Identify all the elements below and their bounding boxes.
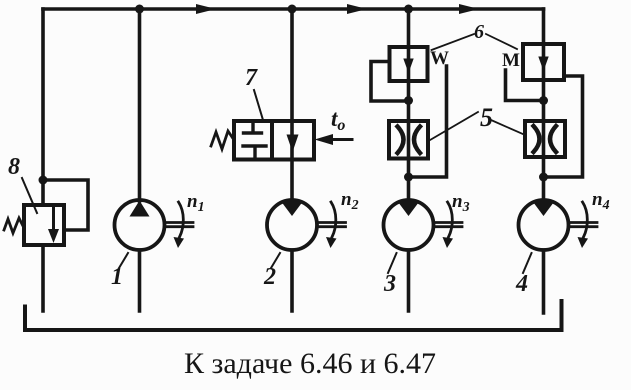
svg-text:5: 5 bbox=[480, 103, 493, 132]
svg-text:7: 7 bbox=[245, 65, 258, 91]
valve 6 right spring-side pilot line bbox=[506, 70, 544, 101]
label 2 leader bbox=[271, 253, 280, 268]
valve 6 left spring-side pilot line bbox=[409, 66, 447, 177]
motor 4 circle bbox=[519, 200, 569, 250]
label 4 leader bbox=[523, 253, 532, 273]
label 7 leader bbox=[254, 90, 263, 120]
relief valve 8 spring bbox=[4, 218, 24, 233]
wire: motor 3 to tank bbox=[407, 250, 411, 311]
wire: pump 1 to tank bbox=[138, 250, 142, 311]
throttle 5 left venturi arcs bbox=[398, 127, 421, 154]
valve 6 right internal arrow bbox=[538, 57, 548, 72]
relief valve 8 internal flow arrow bbox=[52, 207, 55, 235]
relief valve 8 body bbox=[24, 205, 64, 245]
node: junction on rail at branch 3 bbox=[404, 5, 413, 14]
pump 1 circle bbox=[115, 200, 165, 250]
label 6 leaders bbox=[432, 34, 518, 50]
svg-text:3: 3 bbox=[383, 271, 396, 297]
flow-control valve 6 (left) body bbox=[390, 47, 428, 81]
svg-text:8: 8 bbox=[8, 154, 20, 180]
svg-text:К задаче 6.46 и 6.47: К задаче 6.46 и 6.47 bbox=[184, 347, 436, 380]
relief valve 8 pilot line bbox=[43, 180, 88, 230]
valve 7 flow arrow (right position) bbox=[287, 135, 299, 153]
label 8 leader bbox=[22, 178, 37, 213]
flow-control valve 6 (right) body bbox=[523, 44, 564, 80]
flow arrow on rail 2 bbox=[346, 8, 360, 11]
node: junction on rail at branch 1 bbox=[135, 5, 144, 14]
motor 2 flow arrow (down) bbox=[281, 201, 303, 216]
svg-text:W: W bbox=[430, 48, 449, 69]
motor 4 rotation arrow bbox=[583, 202, 588, 237]
motor 4 flow arrow (down) bbox=[533, 201, 555, 216]
svg-text:1: 1 bbox=[111, 264, 123, 290]
tank return rail bbox=[25, 301, 562, 330]
motor 4 shaft bbox=[570, 223, 597, 227]
wire: branch 3 upper (rail through valve 6 and throttle 5 to pump 3) bbox=[407, 9, 411, 201]
node: junction below throttle 5 right bbox=[539, 173, 548, 182]
pump 1 rotation arrow bbox=[179, 202, 184, 237]
valve 6 left internal arrow bbox=[403, 59, 413, 74]
pump 1 shaft bbox=[166, 223, 193, 227]
throttle 5 (left) body bbox=[389, 121, 428, 159]
motor 3 rotation arrow bbox=[448, 202, 453, 237]
node: junction below valve 6 right bbox=[539, 96, 548, 105]
flow arrow on rail 3 bbox=[458, 8, 472, 11]
node: junction on rail at branch 2 bbox=[288, 5, 297, 14]
node: junction below throttle 5 left bbox=[404, 173, 413, 182]
node: pilot junction on left branch bbox=[39, 176, 48, 185]
wire: branch 4 upper (rail corner down through valve 6 and throttle 5 to pump 4) bbox=[542, 9, 546, 201]
valve 7 spring bbox=[211, 131, 234, 149]
valve 6 left pilot loop (upstream sense) bbox=[371, 62, 409, 102]
flow arrow on rail 1 bbox=[195, 8, 209, 11]
label 5 leaders bbox=[428, 112, 526, 142]
wire: left branch lower (valve 8 to tank rail) bbox=[41, 245, 45, 311]
valve 7 body (two-position, temperature controlled) bbox=[234, 121, 314, 160]
motor 2 rotation arrow bbox=[331, 202, 336, 237]
wire: branch 1 upper (rail to pump 1) bbox=[138, 9, 142, 201]
svg-text:6: 6 bbox=[474, 21, 484, 43]
wire: branch 2 upper (rail through valve 7 to pump 2) bbox=[290, 9, 294, 201]
svg-text:M: M bbox=[502, 50, 520, 71]
motor 2 circle bbox=[267, 200, 317, 250]
valve 6 right pilot loop (downstream sense) bbox=[544, 76, 583, 177]
wire: left branch upper (to relief valve 8) bbox=[41, 9, 45, 205]
valve 7 thermal actuator t0 arrow bbox=[330, 138, 352, 141]
wire: motor 4 to tank bbox=[542, 250, 546, 313]
motor 3 shaft bbox=[435, 223, 462, 227]
node: junction below valve 6 left bbox=[404, 96, 413, 105]
valve 7 closed-port symbol top bbox=[244, 122, 262, 133]
wire: motor 2 to tank bbox=[290, 250, 294, 311]
motor 3 flow arrow (down) bbox=[398, 201, 420, 216]
svg-text:2: 2 bbox=[263, 264, 276, 290]
throttle 5 right venturi arcs bbox=[534, 126, 557, 152]
label 3 leader bbox=[388, 253, 397, 273]
motor 2 shaft bbox=[319, 223, 346, 227]
pump 1 flow triangle (up) bbox=[130, 201, 150, 217]
svg-text:4: 4 bbox=[515, 271, 528, 297]
throttle 5 (right) body bbox=[525, 121, 565, 157]
label 1 leader bbox=[119, 253, 128, 268]
top supply rail wire bbox=[43, 7, 544, 11]
motor 3 circle bbox=[384, 200, 434, 250]
valve 7 closed-port symbol bottom bbox=[243, 146, 266, 158]
